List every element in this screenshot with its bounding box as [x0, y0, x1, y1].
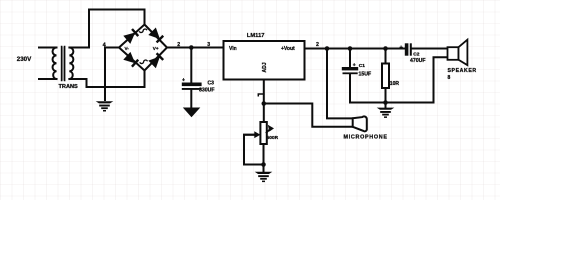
wire primary bottom lead [39, 78, 54, 80]
junction dot ADJ node [262, 101, 267, 106]
resistor R1 [382, 64, 389, 89]
svg-text:+: + [399, 46, 403, 52]
wire R1 branch [385, 49, 387, 64]
wire secondary bottom to bridge bottom [72, 71, 144, 88]
speaker SP1 [448, 47, 459, 60]
wire C1 branch [349, 49, 351, 68]
ground G4 solid triangle [183, 108, 201, 118]
svg-text:15UF: 15UF [359, 72, 372, 78]
svg-text:+: + [353, 63, 356, 69]
svg-text:470UF: 470UF [410, 58, 426, 64]
op-amp U1 LM117 regulator box [224, 41, 305, 80]
capacitor C2 [405, 43, 412, 55]
ground G2 [255, 172, 273, 182]
svg-text:ADJ: ADJ [262, 62, 268, 72]
wire ADJ pin down [263, 80, 265, 104]
wire LM117 output rail [305, 48, 405, 50]
potentiometer R2 body [263, 104, 265, 123]
svg-text:MICROPHONE: MICROPHONE [344, 135, 388, 141]
wire secondary top to bridge top via loop [72, 10, 144, 48]
wire node4 down to ground [104, 48, 106, 101]
wire R1 bottom to rail [385, 88, 387, 103]
svg-text:3: 3 [207, 42, 210, 48]
wire C3 to ground [190, 90, 192, 108]
wire down to C3 [190, 48, 192, 83]
wire ADJ node to microphone lower lead [264, 104, 353, 127]
wire C2 to speaker [412, 48, 448, 50]
microphone symbol [353, 116, 367, 131]
diode D2 top-right [149, 28, 164, 43]
junction dot C3 tap [189, 45, 194, 50]
wire speaker return [434, 57, 448, 102]
ground G1 [96, 101, 114, 111]
junction dot R1 tap [383, 46, 388, 51]
junction dot bottom rail ground [383, 100, 388, 105]
svg-text:V+: V+ [153, 46, 159, 51]
svg-text:C3: C3 [208, 81, 215, 87]
svg-text:2: 2 [177, 42, 180, 48]
pin tick ADJ [258, 94, 264, 96]
wire bottom rail [350, 102, 434, 104]
transformer core [62, 47, 65, 81]
wire pot bottom lead [263, 144, 265, 165]
diode D1 top-left [124, 28, 139, 43]
svg-text:+: + [182, 78, 185, 84]
capacitor C3 [182, 83, 202, 90]
wire ground stem [385, 103, 387, 108]
wire wiper loop to bottom [244, 135, 264, 165]
svg-text:330UF: 330UF [199, 88, 215, 94]
label ac top [140, 28, 147, 33]
svg-text:2: 2 [316, 42, 319, 48]
wire C1 bottom to rail [349, 74, 351, 102]
junction dot mic tap [325, 46, 330, 51]
wire output node to microphone upper lead [327, 49, 353, 119]
svg-text:C2: C2 [413, 51, 419, 57]
capacitor C1 [342, 67, 358, 74]
svg-text:230V: 230V [17, 56, 32, 63]
ground G3 [377, 108, 395, 118]
junction dot C1 tap [348, 46, 353, 51]
svg-text:V-: V- [125, 46, 130, 51]
svg-text:+Vout: +Vout [281, 46, 295, 52]
wire node4 to bridge left vertex [105, 47, 119, 49]
wire to ground [263, 165, 265, 172]
label ac bottom [140, 59, 147, 64]
transformer TRANS primary winding [53, 48, 57, 80]
diode D3 bottom-left [124, 53, 139, 68]
bridge rectifier diamond [119, 25, 167, 71]
transformer TRANS secondary winding [69, 48, 73, 80]
svg-text:TRANS: TRANS [59, 84, 79, 90]
potentiometer diagonal arrowhead [267, 129, 271, 133]
svg-text:500R: 500R [267, 135, 279, 141]
svg-text:LM117: LM117 [247, 33, 265, 39]
svg-text:10R: 10R [390, 81, 400, 87]
wire bridge V+ to LM117 Vin [167, 47, 224, 49]
junction dot pot ground node [261, 162, 266, 167]
svg-text:8: 8 [448, 75, 451, 81]
diode D4 bottom-right [149, 52, 164, 67]
svg-text:C1: C1 [359, 63, 365, 69]
potentiometer wiper arrow [244, 134, 254, 136]
svg-text:Vin: Vin [229, 46, 237, 52]
svg-text:SPEAKER: SPEAKER [448, 68, 477, 74]
wire primary top lead [39, 47, 54, 49]
